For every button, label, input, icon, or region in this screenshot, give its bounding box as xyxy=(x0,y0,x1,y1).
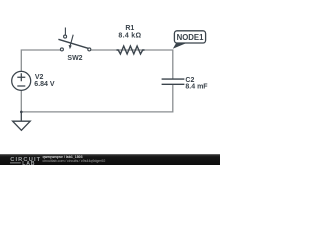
svg-text:R1: R1 xyxy=(125,25,134,32)
svg-text:8.4 kΩ: 8.4 kΩ xyxy=(118,32,141,39)
svg-text:circuitlab.com ∕ circuits ∕ c9: circuitlab.com ∕ circuits ∕ c9s44q9dgm92 xyxy=(43,159,106,163)
svg-text:6.84 V: 6.84 V xyxy=(34,81,55,88)
svg-text:LAB: LAB xyxy=(22,161,35,165)
svg-text:NODE1: NODE1 xyxy=(177,33,205,42)
svg-text:8.4 mF: 8.4 mF xyxy=(185,84,208,91)
svg-text:SW2: SW2 xyxy=(67,55,82,62)
